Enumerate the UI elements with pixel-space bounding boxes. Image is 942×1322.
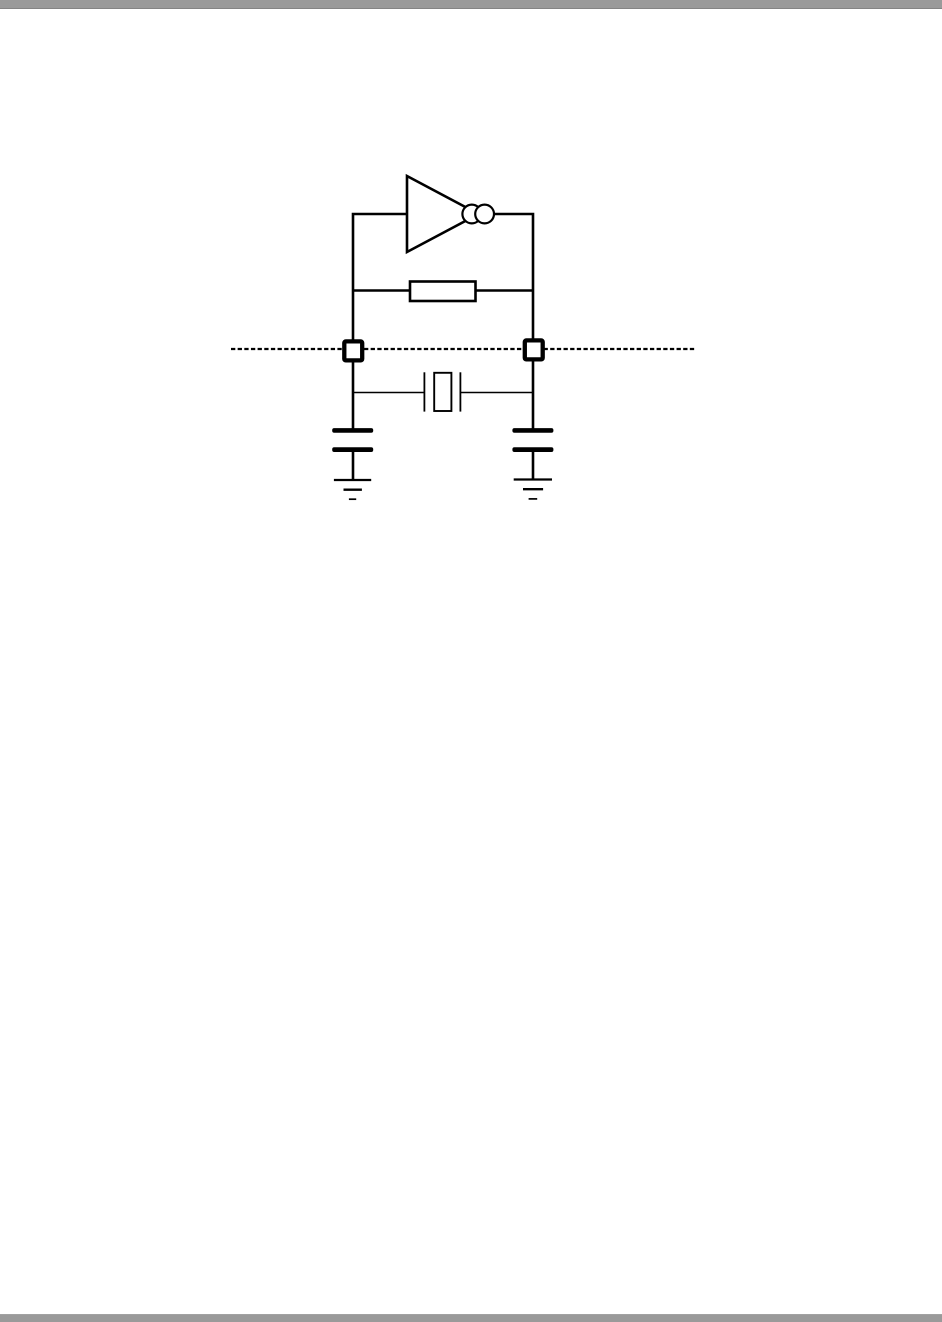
inverter output bubble 1 — [462, 205, 481, 224]
wire: right lead of feedback resistor — [473, 289, 533, 292]
capacitor C1 top plate — [332, 428, 373, 433]
wire: right net (inverter output down to right capacitor) — [492, 214, 533, 429]
ground (left) — [334, 480, 371, 499]
pad XTAL1 (left chip pin square) — [344, 341, 362, 360]
capacitor C2 top plate — [512, 428, 553, 433]
capacitor C1 bottom plate — [332, 447, 373, 452]
wire: left lead of feedback resistor — [353, 289, 412, 292]
crystal Y1 body — [434, 373, 451, 411]
chip boundary dashed line — [231, 348, 695, 350]
crystal Y1 right electrode plate — [459, 372, 461, 411]
pad XTAL2 (right chip pin square) — [525, 340, 543, 359]
wire: right lead of crystal — [460, 392, 533, 394]
wire: left net (inverter input down to left capacitor) — [353, 214, 408, 429]
footer bar — [0, 1314, 942, 1322]
capacitor C2 bottom plate — [512, 447, 553, 452]
crystal Y1 left electrode plate — [423, 372, 425, 411]
wire: right capacitor to ground — [532, 450, 535, 480]
header bar — [0, 0, 942, 9]
wire: left lead of crystal — [353, 392, 425, 394]
inverter U1 (triangle) — [407, 176, 479, 252]
inverter output bubble 2 — [475, 205, 494, 224]
resistor R1 (feedback resistor body) — [410, 282, 476, 302]
ground (right) — [514, 480, 552, 499]
wire: left capacitor to ground — [352, 450, 355, 480]
